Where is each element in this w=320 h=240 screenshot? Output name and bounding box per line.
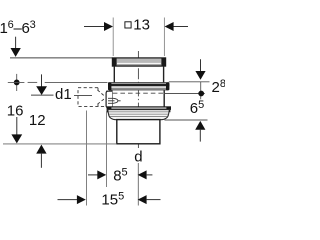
phantom cone dashed [98, 90, 105, 104]
hidden bore dashed line inside socket [113, 92, 164, 94]
socket rim band [112, 58, 165, 66]
dimension line at flange bottom level right [165, 119, 208, 121]
dimension 16 down arrow [11, 117, 22, 143]
svg-text:d1: d1 [55, 86, 72, 103]
dimension square-13 left arrow [84, 22, 113, 31]
extension line left of square-13 dimension [112, 18, 114, 57]
extension line at flange left edge [106, 111, 108, 187]
dimension 16-63 reference dot [14, 74, 20, 91]
d1 leader line [74, 95, 92, 97]
body walls below collar [111, 90, 113, 107]
dimension 2.8 down arrow with stem to dot [195, 59, 205, 99]
phantom tool dashed box [78, 88, 105, 107]
flange top band [107, 107, 171, 113]
outlet spigot [117, 120, 160, 144]
label square 13 [125, 17, 150, 34]
extension line at phantom box edge [86, 111, 88, 206]
dimension line at 2.8 level right [169, 81, 210, 83]
dimension line top (socket rim level) [10, 57, 113, 59]
dimension square-13 right arrow [165, 22, 188, 31]
dimension 15.5 arrows [58, 195, 161, 204]
label d [133, 149, 145, 166]
step line under collar left [106, 90, 112, 92]
extension line right of square-13 dimension [163, 18, 165, 57]
centerline of fitting [137, 51, 139, 163]
dimension line at collar top level [8, 81, 108, 83]
svg-text:12: 12 [29, 112, 46, 129]
clamping collar with seal rings [108, 82, 169, 90]
dimension 12 up arrow [36, 145, 46, 168]
lubricator nose on left [106, 91, 112, 107]
dimension 8.5 arrows [88, 170, 152, 179]
nozzle horn inside nose [108, 98, 121, 103]
dimension line at bore level right with dot [164, 91, 205, 97]
svg-text:d: d [134, 149, 142, 166]
dimension 6.5 up arrow [195, 121, 205, 142]
svg-text:13: 13 [133, 17, 150, 34]
dimension line d1 [31, 94, 54, 96]
svg-text:16: 16 [7, 102, 24, 119]
dimension 16-63 down arrow [11, 37, 21, 57]
socket walls [113, 67, 115, 83]
dimension d1 down arrow [36, 74, 47, 95]
flange body [108, 110, 170, 120]
bottom reference line [3, 143, 117, 145]
